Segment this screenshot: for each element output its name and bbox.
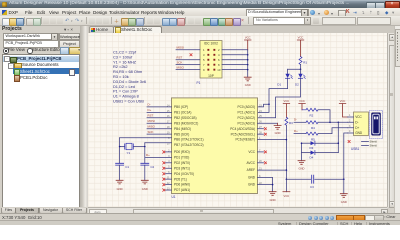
ground below U1 GND pins bbox=[269, 192, 276, 202]
wire RST to U1 PB2 bbox=[147, 117, 172, 119]
power VCC above R2 bbox=[299, 99, 306, 110]
wire R1 bottom to LED tops bbox=[288, 65, 301, 70]
wire R4 to USB D- pin bbox=[318, 121, 348, 123]
pin stub U1 VCC bbox=[258, 151, 264, 153]
wire D+ to U1 PB1 bbox=[147, 111, 172, 113]
svg-text:Shield: Shield bbox=[370, 140, 378, 144]
svg-text:R4: R4 bbox=[311, 126, 315, 130]
no-ERC cross U1 PD7 bbox=[163, 189, 165, 192]
svg-text:PD0 (RXD): PD0 (RXD) bbox=[174, 150, 190, 154]
BOM notes text block bbox=[113, 50, 146, 104]
svg-text:R1: R1 bbox=[303, 61, 307, 65]
U1 right pin numbers bbox=[259, 104, 262, 185]
no-ERC cross U1 PC4 bbox=[264, 127, 266, 130]
svg-text:PC0 (ADC0): PC0 (ADC0) bbox=[238, 105, 255, 109]
no-ERC cross U1 PC5 bbox=[264, 133, 266, 136]
wire SCK to P1 pin7 bbox=[176, 64, 200, 66]
resistor R5 bbox=[306, 132, 318, 141]
wire MOSI to P1 pin1 bbox=[176, 49, 200, 51]
pin stub U1 PD7 bbox=[166, 189, 172, 191]
node R3 rail RESET junction bbox=[286, 139, 288, 141]
node crystal right junction bbox=[144, 146, 146, 148]
svg-text:D+: D+ bbox=[146, 153, 150, 157]
svg-text:VCC: VCC bbox=[340, 99, 346, 103]
zener diode D4 bbox=[302, 151, 339, 160]
resistor R4 bbox=[306, 121, 318, 130]
svg-text:VCC: VCC bbox=[299, 99, 305, 103]
svg-text:AVCC: AVCC bbox=[247, 161, 256, 165]
wire C3 rail bbox=[286, 178, 343, 180]
node D3 anode junction bbox=[301, 142, 303, 144]
connector USB1 body bbox=[351, 112, 369, 151]
svg-text:RST: RST bbox=[177, 56, 183, 60]
node P1 pin10 junction bbox=[247, 69, 249, 71]
svg-text:GND: GND bbox=[275, 131, 281, 135]
svg-text:PD4 (XCK/T0): PD4 (XCK/T0) bbox=[174, 172, 194, 176]
svg-text:PD7 (AIN1): PD7 (AIN1) bbox=[174, 188, 190, 192]
pin stub U1 PD4 bbox=[166, 173, 172, 175]
svg-text:R5: R5 bbox=[311, 137, 315, 141]
svg-text:USB1: USB1 bbox=[351, 147, 360, 151]
pin stub U1 AVCC bbox=[258, 162, 264, 164]
wire MISO to U1 PB4 bbox=[147, 128, 172, 130]
LED D1 bbox=[277, 69, 292, 86]
svg-text:R3: R3 bbox=[289, 121, 293, 125]
ground below C2 bbox=[141, 180, 148, 191]
node D3 cathode junction bbox=[338, 142, 340, 144]
USB1 shield pin names bbox=[370, 140, 378, 148]
svg-text:U1: U1 bbox=[172, 195, 176, 199]
svg-text:PC1 (ADC1): PC1 (ADC1) bbox=[238, 110, 255, 114]
svg-text:P1: P1 bbox=[197, 81, 201, 85]
svg-text:PC5 (ADC5/SCL): PC5 (ADC5/SCL) bbox=[231, 132, 255, 136]
power VCC above R1 bbox=[297, 35, 304, 56]
USB1 pin stubs bbox=[348, 117, 354, 133]
svg-text:PD3 (INT1): PD3 (INT1) bbox=[174, 166, 190, 170]
wire XTAL2 rail to U1 PB7 bbox=[145, 142, 172, 144]
svg-text:PB7 (XTAL2/TOSC2): PB7 (XTAL2/TOSC2) bbox=[174, 143, 204, 147]
wire RST to P1 pin5 bbox=[176, 59, 200, 61]
node R3 rail AREF junction bbox=[286, 169, 288, 171]
svg-text:SCK: SCK bbox=[177, 60, 183, 64]
node D- R2 junction bbox=[329, 122, 331, 124]
svg-text:10: 10 bbox=[217, 68, 221, 72]
capacitor C1 bbox=[116, 163, 130, 180]
wire USB GND down rail bbox=[344, 133, 348, 194]
node D- zener junction bbox=[338, 122, 340, 124]
wire D1 cathode to U1 PC1 bbox=[258, 78, 288, 112]
node R3 rail C3 junction bbox=[286, 178, 288, 180]
svg-text:D1: D1 bbox=[277, 83, 281, 87]
svg-text:Shield: Shield bbox=[370, 144, 378, 148]
crystal Y1 bbox=[120, 143, 145, 155]
wire zener anodes down to ground bbox=[301, 143, 303, 161]
svg-text:PB0 (ICP): PB0 (ICP) bbox=[174, 105, 188, 109]
capacitor C2 bbox=[141, 163, 155, 180]
wire XTAL1 rail to U1 PB6 bbox=[120, 137, 172, 139]
resistor R1 bbox=[299, 57, 307, 65]
svg-text:PB2 (SS/OC1B): PB2 (SS/OC1B) bbox=[174, 116, 197, 120]
svg-text:PC6 (RESET): PC6 (RESET) bbox=[235, 138, 255, 142]
svg-text:D+: D+ bbox=[355, 126, 359, 130]
pin stub U1 PD0 bbox=[166, 151, 172, 153]
svg-text:PB5 (SCK): PB5 (SCK) bbox=[174, 132, 189, 136]
pin stub U1 PD3 bbox=[166, 167, 172, 169]
pin stub U1 PD5 bbox=[166, 178, 172, 180]
zener diode D3 bbox=[302, 141, 339, 150]
U1 right power pin names bbox=[247, 150, 256, 187]
svg-text:VCC: VCC bbox=[248, 150, 255, 154]
svg-text:RST: RST bbox=[148, 114, 154, 118]
no-ERC cross U1 PD4 bbox=[163, 172, 165, 175]
no-ERC cross U1 AVCC bbox=[264, 162, 266, 165]
wire R3 rail down to AREF / C3 / VCC port bbox=[285, 125, 287, 191]
U1 left pin name column PB0-PB7 bbox=[174, 105, 204, 147]
node P1 pin4 junction bbox=[247, 54, 249, 56]
node P1 pin8 junction bbox=[247, 64, 249, 66]
USB1 pin numbers bbox=[349, 114, 351, 133]
svg-text:PC3 (ADC3): PC3 (ADC3) bbox=[238, 121, 255, 125]
svg-text:MOSI: MOSI bbox=[148, 119, 156, 123]
svg-text:C2: C2 bbox=[150, 165, 154, 169]
svg-text:D+: D+ bbox=[148, 108, 152, 112]
no-ERC cross U1 VCC bbox=[264, 151, 266, 154]
ground below C1 bbox=[116, 180, 123, 191]
wire D+ to U1 PD1 bbox=[146, 156, 172, 158]
svg-text:GND: GND bbox=[270, 198, 276, 202]
svg-text:PC4 (ADC4/SDA): PC4 (ADC4/SDA) bbox=[230, 127, 255, 131]
wire crystal right leg down to C2 bbox=[144, 143, 146, 164]
capacitor C3 bbox=[310, 175, 314, 189]
svg-text:PD6 (AIN0): PD6 (AIN0) bbox=[174, 183, 190, 187]
svg-text:C3: C3 bbox=[310, 185, 314, 189]
svg-text:PD2 (INT0): PD2 (INT0) bbox=[174, 161, 190, 165]
wire U1 GND pins to ground bbox=[258, 178, 273, 192]
svg-text:PD5 (T1): PD5 (T1) bbox=[174, 177, 187, 181]
svg-text:GND: GND bbox=[248, 183, 256, 187]
svg-text:GND: GND bbox=[341, 200, 347, 204]
U1 left pin name column PD0-PD7 bbox=[174, 150, 194, 192]
svg-text:D-: D- bbox=[355, 121, 358, 125]
node crystal left junction bbox=[119, 146, 121, 148]
svg-text:SCK: SCK bbox=[148, 130, 154, 134]
svg-text:GND: GND bbox=[355, 131, 363, 135]
wire MOSI to U1 PB3 bbox=[147, 122, 172, 124]
node P1 pin6 junction bbox=[247, 59, 249, 61]
U1 left pin numbers bbox=[167, 104, 170, 190]
U1 right pin name column PC0-PC6 bbox=[230, 105, 255, 142]
no-ERC cross on P1 pin3 bbox=[190, 54, 192, 56]
svg-text:Y1: Y1 bbox=[127, 151, 131, 155]
USB1 pin names bbox=[355, 115, 363, 135]
svg-text:R2: R2 bbox=[310, 113, 314, 117]
no-ERC cross U1 PD6 bbox=[163, 183, 165, 186]
wire R2 to D- node bbox=[318, 110, 330, 123]
wire MISO to P1 pin9 bbox=[176, 69, 200, 71]
svg-text:10P: 10P bbox=[208, 74, 214, 78]
wire D2 cathode to U1 PC2 bbox=[258, 78, 301, 118]
svg-text:GND: GND bbox=[299, 166, 305, 170]
resistor R3 bbox=[285, 117, 293, 125]
svg-text:GND: GND bbox=[142, 187, 148, 191]
ground below P1 rail bbox=[244, 77, 251, 87]
wire U1 AREF to R3 rail bbox=[258, 169, 287, 171]
svg-text:IDC 10X2: IDC 10X2 bbox=[204, 42, 218, 46]
svg-text:GND: GND bbox=[248, 176, 256, 180]
svg-text:PB4 (MISO): PB4 (MISO) bbox=[174, 127, 191, 131]
no-ERC cross U1 PD2 bbox=[163, 162, 165, 165]
svg-text:PB3 (MOSI/OC2): PB3 (MOSI/OC2) bbox=[174, 121, 198, 125]
svg-text:MISO: MISO bbox=[148, 125, 156, 129]
wire U1 PC6 RESET to R3 rail bbox=[258, 139, 287, 141]
ground at U1 PC3 bbox=[274, 123, 281, 135]
wire U1 PC3 to ground stub bbox=[258, 122, 278, 124]
svg-text:AREF: AREF bbox=[247, 168, 255, 172]
svg-text:VCC: VCC bbox=[355, 115, 362, 119]
power port bar below R3 rail bbox=[283, 192, 290, 198]
no-ERC cross U1 PD5 bbox=[163, 178, 165, 181]
connector P1 IDC 10x2 bbox=[197, 41, 223, 86]
svg-text:GND: GND bbox=[245, 83, 251, 87]
ground below zeners bbox=[298, 161, 305, 171]
svg-text:MISO: MISO bbox=[177, 65, 185, 69]
svg-text:D-: D- bbox=[148, 103, 151, 107]
node R1-D1-D2 junction bbox=[300, 69, 302, 71]
node U1 GND junction bbox=[272, 184, 274, 186]
op IC U1 ATmega8 body bbox=[172, 98, 258, 199]
pin stub U1 PD6 bbox=[166, 184, 172, 186]
wire D- to U1 PB0 bbox=[147, 106, 172, 108]
svg-text:D2: D2 bbox=[295, 83, 299, 87]
wire zener cathodes up to D- node bbox=[337, 122, 339, 152]
power VCC above R3 rail bbox=[283, 99, 290, 117]
svg-text:VCC: VCC bbox=[284, 99, 290, 103]
no-ERC cross USB1 shield bbox=[348, 140, 350, 142]
svg-text:PB6 (XTAL1/TOSC1): PB6 (XTAL1/TOSC1) bbox=[174, 138, 204, 142]
node PC0 branch junction bbox=[268, 103, 270, 105]
wire P1 right pins to VCC-GND rail bbox=[222, 50, 248, 70]
power VCC above P1 rail bbox=[245, 35, 252, 49]
svg-text:D3: D3 bbox=[310, 146, 314, 150]
wire D- net with resistor R4 to USB bbox=[294, 121, 306, 123]
svg-text:D-: D- bbox=[294, 118, 297, 122]
USB1 shield pin stubs bbox=[362, 142, 369, 146]
wire crystal left leg down to C1 bbox=[119, 138, 121, 164]
no-ERC cross U1 PD3 bbox=[163, 167, 165, 170]
svg-text:VCC: VCC bbox=[284, 194, 290, 198]
svg-text:PB1 (OC1A): PB1 (OC1A) bbox=[174, 110, 191, 114]
wire U1 PC0 up-over to D1 branch bbox=[258, 104, 270, 107]
svg-text:D4: D4 bbox=[310, 155, 314, 159]
pin stub U1 PC4 bbox=[258, 128, 264, 130]
svg-text:PD1 (TXD): PD1 (TXD) bbox=[174, 155, 189, 159]
pin stub U1 PC5 bbox=[258, 133, 264, 135]
ground bottom right bbox=[340, 194, 347, 204]
wire D+ net to resistor R5 bbox=[294, 133, 306, 135]
wire SCK to U1 PB5 bbox=[147, 133, 172, 135]
power VCC above USB bbox=[339, 99, 347, 117]
node C3 right junction bbox=[343, 178, 345, 180]
svg-text:C1: C1 bbox=[125, 165, 129, 169]
svg-text:GND: GND bbox=[117, 187, 123, 191]
LED D2 bbox=[295, 69, 305, 86]
svg-text:MOSI: MOSI bbox=[177, 46, 185, 50]
svg-text:VCC: VCC bbox=[245, 35, 251, 39]
resistor R2 bbox=[302, 108, 318, 117]
pin stub U1 PD2 bbox=[166, 162, 172, 164]
wire R5 up to USB D+ pin bbox=[318, 128, 348, 134]
svg-text:USB1 = Con USB: USB1 = Con USB bbox=[113, 99, 144, 104]
USB1 socket graphic bbox=[370, 111, 383, 139]
wire VCC-GND vertical rail at P1 bbox=[247, 50, 249, 77]
svg-text:VCC: VCC bbox=[298, 35, 304, 39]
svg-text:D+: D+ bbox=[294, 129, 298, 133]
svg-text:PC2 (ADC2): PC2 (ADC2) bbox=[238, 116, 255, 120]
no-ERC cross U1 PD0 bbox=[163, 151, 165, 154]
